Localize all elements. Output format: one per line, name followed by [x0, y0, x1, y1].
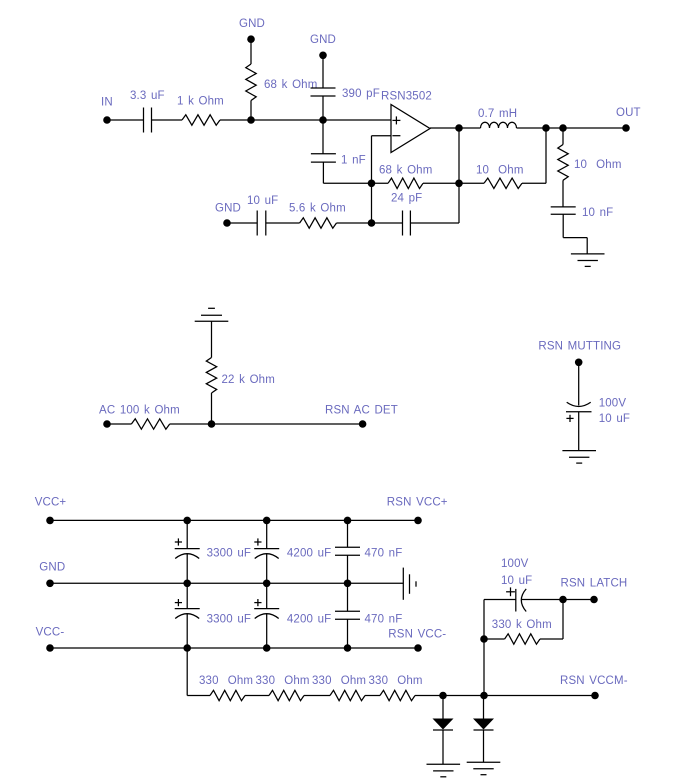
- node A junction: [247, 116, 255, 124]
- svg-text:GND: GND: [39, 562, 65, 574]
- svg-text:3.3 uF: 3.3 uF: [130, 90, 165, 102]
- node RSN AC DET terminal: [359, 420, 367, 428]
- wire L1 to node F: [517, 127, 547, 129]
- GND terminal 3: [223, 219, 231, 227]
- polarity + mark: [566, 415, 573, 422]
- svg-text:10 uF: 10 uF: [247, 195, 278, 207]
- resistor 22 k Ohm vertical: [206, 358, 216, 393]
- wire node A to node B: [251, 119, 323, 121]
- wire R1 to node A: [220, 119, 251, 121]
- svg-text:24 pF: 24 pF: [391, 193, 422, 205]
- svg-text:3300 uF: 3300 uF: [207, 548, 251, 560]
- svg-text:GND: GND: [239, 18, 265, 30]
- wire VCC+ rail: [50, 519, 418, 521]
- resistor 10 Ohm: [484, 178, 522, 188]
- capacitor 3300 uF electrolytic: [175, 549, 200, 559]
- resistor 330 Ohm 3: [330, 690, 365, 700]
- wire minus to node C: [371, 136, 373, 184]
- resistor 68 k Ohm vertical: [246, 64, 256, 100]
- wire node K to node L: [443, 695, 484, 697]
- wire C3 down: [322, 162, 324, 183]
- svg-text:5.6 k Ohm: 5.6 k Ohm: [289, 203, 346, 215]
- resistor 1 k Ohm: [182, 115, 220, 125]
- svg-text:10 Ohm: 10 Ohm: [476, 165, 524, 177]
- op-amp + input mark: [392, 116, 400, 124]
- label GND 4: [39, 562, 65, 574]
- label VCC-: [36, 627, 65, 639]
- diode D2: [473, 696, 494, 731]
- part label RSN3502: [381, 91, 432, 103]
- svg-text:RSN AC DET: RSN AC DET: [325, 405, 398, 417]
- capacitor 3300 uF electrolytic 2: [175, 609, 200, 619]
- svg-text:100V: 100V: [501, 558, 529, 570]
- label RSN AC DET: [325, 405, 398, 417]
- capacitor 3.3 uF: [144, 108, 152, 133]
- node OUT terminal: [622, 124, 630, 132]
- ground 2: [562, 451, 596, 464]
- wire R7 to node J: [211, 393, 213, 424]
- wire R13 to node N: [484, 638, 505, 640]
- value label 10 uF 2: [599, 413, 630, 425]
- svg-text:330 Ohm: 330 Ohm: [256, 675, 310, 687]
- svg-text:3300 uF: 3300 uF: [207, 614, 251, 626]
- node IN terminal: [103, 116, 111, 124]
- node RSN VCC- terminal: [414, 644, 422, 652]
- value label 10 uF 3: [501, 575, 532, 587]
- wire latch cap to node M: [521, 599, 563, 601]
- value label 68 k Ohm 2: [379, 165, 432, 177]
- resistor 10 Ohm vertical: [558, 145, 568, 181]
- svg-text:68 k Ohm: 68 k Ohm: [379, 165, 432, 177]
- capacitor 10 uF: [257, 211, 266, 236]
- diode D1: [433, 696, 454, 731]
- resistor 330 Ohm 2: [269, 690, 304, 700]
- wire node M down: [562, 600, 564, 640]
- wire C8 to GND rail: [186, 554, 188, 584]
- svg-text:330 k Ohm: 330 k Ohm: [492, 619, 552, 631]
- capacitor 470 nF 2: [335, 611, 360, 619]
- wire to ground: [586, 238, 588, 254]
- node RSN MUTTING terminal: [575, 359, 583, 367]
- wire chain 3-4: [365, 695, 380, 697]
- node VCC+ terminal: [46, 517, 54, 525]
- label OUT: [616, 107, 641, 119]
- resistor 330 k Ohm: [505, 634, 540, 644]
- wire GND2 to C2: [322, 55, 324, 88]
- node F junction: [542, 124, 550, 132]
- value label 3300 uF 2: [207, 614, 251, 626]
- node D junction: [368, 219, 376, 227]
- wire D2 to ground: [483, 730, 485, 762]
- svg-text:VCC+: VCC+: [35, 497, 67, 509]
- node GND terminal 4: [46, 580, 54, 588]
- svg-text:AC 100 k Ohm: AC 100 k Ohm: [99, 405, 180, 417]
- svg-text:RSN MUTTING: RSN MUTTING: [538, 341, 621, 353]
- ground 3 right-facing: [403, 568, 416, 600]
- node J junction: [208, 420, 216, 428]
- wire node H to R4: [459, 182, 484, 184]
- node AC terminal: [103, 420, 111, 428]
- wire jog right: [563, 237, 587, 239]
- polarity + mark 4: [175, 599, 182, 606]
- wire chain 1-2: [245, 695, 269, 697]
- label GND 3: [215, 203, 241, 215]
- svg-text:RSN VCC-: RSN VCC-: [388, 629, 446, 641]
- polarity + mark 6: [506, 587, 515, 596]
- resistor 100 k Ohm: [131, 419, 169, 429]
- wire R5 to C4: [562, 180, 564, 207]
- svg-text:IN: IN: [101, 97, 113, 109]
- value label 100V: [599, 398, 627, 410]
- wire node N down to node L: [483, 639, 485, 696]
- node VCC- terminal: [46, 644, 54, 652]
- wire R2 to node A: [250, 101, 252, 121]
- node rail junction 1: [183, 517, 191, 525]
- capacitor 10 nF: [551, 207, 576, 214]
- wire GND rail to C11: [186, 583, 188, 608]
- wire C11 to VCC- rail: [186, 614, 188, 649]
- wire node C to R3: [372, 182, 389, 184]
- node C junction: [368, 180, 376, 188]
- svg-text:GND: GND: [215, 203, 241, 215]
- svg-text:22 k Ohm: 22 k Ohm: [222, 374, 275, 386]
- wire up to node H: [458, 183, 460, 223]
- value label 1 k Ohm: [177, 96, 224, 108]
- polarity + mark 3: [254, 538, 261, 545]
- wire node F to node G: [546, 127, 563, 129]
- wire VCC+ to C8: [186, 520, 188, 548]
- resistor 5.6 k Ohm: [300, 218, 337, 228]
- GND terminal: [247, 35, 255, 43]
- capacitor 4200 uF electrolytic: [254, 549, 279, 559]
- wire GND rail: [50, 582, 403, 584]
- value label 330 k Ohm: [492, 619, 552, 631]
- value label 10 Ohm 2: [574, 159, 622, 171]
- wire D1 to ground: [442, 730, 444, 764]
- wire up to node F: [545, 128, 547, 183]
- value label 3300 uF: [207, 548, 251, 560]
- capacitor 4200 uF electrolytic 2: [254, 609, 279, 619]
- wire ground to R7: [211, 321, 213, 357]
- capacitor 1 nF: [311, 154, 336, 162]
- label IN: [101, 97, 113, 109]
- wire op-amp output: [430, 127, 459, 129]
- label RSN LATCH: [561, 578, 628, 590]
- svg-text:GND: GND: [310, 34, 336, 46]
- wire C2 to node B: [322, 96, 324, 120]
- node RSN VCC+ terminal: [414, 517, 422, 525]
- wire C9 to GND rail: [266, 554, 268, 584]
- wire chain 2-3: [304, 695, 330, 697]
- svg-text:1 k Ohm: 1 k Ohm: [177, 96, 224, 108]
- wire node B to C3: [322, 120, 324, 154]
- wire IN to C1: [107, 119, 144, 121]
- svg-text:10 uF: 10 uF: [599, 413, 630, 425]
- resistor 330 Ohm 1: [210, 690, 245, 700]
- node rail junction 6: [344, 580, 352, 588]
- wire VCC- down to chain: [186, 648, 188, 696]
- label AC 100 k Ohm: [99, 405, 180, 417]
- node RSN VCCM- terminal: [591, 692, 599, 700]
- wire C1 to R1: [152, 119, 183, 121]
- svg-text:390 pF: 390 pF: [342, 88, 380, 100]
- value label 100V 2: [501, 558, 529, 570]
- wire node M to RSN LATCH: [563, 599, 594, 601]
- wire R6 to node D: [337, 222, 372, 224]
- wire to R13: [540, 638, 563, 640]
- wire chain start: [187, 695, 210, 697]
- svg-text:100V: 100V: [599, 398, 627, 410]
- ground: [571, 254, 605, 267]
- wire C4 down: [562, 214, 564, 237]
- svg-text:10 Ohm: 10 Ohm: [574, 159, 622, 171]
- wire op-amp - stub: [372, 135, 392, 137]
- node rail junction 3: [344, 517, 352, 525]
- polarity + mark 2: [175, 538, 182, 545]
- node rail junction 4: [183, 580, 191, 588]
- capacitor 470 nF: [335, 547, 360, 555]
- value label 330 Ohm chain: [199, 675, 423, 687]
- wire C3 to node C: [323, 182, 371, 184]
- capacitor 390 pF: [311, 88, 336, 96]
- wire R3 to node H: [423, 182, 459, 184]
- value label 1 nF: [341, 155, 366, 167]
- ground inverted: [195, 308, 229, 321]
- wire GND rail to C13: [347, 583, 349, 611]
- wire C6 right: [410, 222, 459, 224]
- polarity + mark 5: [254, 599, 261, 606]
- node K junction: [439, 692, 447, 700]
- wire VCC+ to C9: [266, 520, 268, 548]
- value label 3.3 uF: [130, 90, 165, 102]
- svg-text:1 nF: 1 nF: [341, 155, 366, 167]
- svg-text:OUT: OUT: [616, 107, 641, 119]
- wire C12 to VCC- rail: [266, 614, 268, 649]
- wire C7 to ground: [578, 412, 580, 451]
- label RSN MUTTING: [538, 341, 621, 353]
- wire node D to C6: [372, 222, 403, 224]
- wire C5 to R6: [266, 222, 300, 224]
- label GND: [239, 18, 265, 30]
- wire VCC- rail: [50, 647, 418, 649]
- wire VCC+ to C10: [347, 520, 349, 547]
- value label 470 nF 2: [365, 614, 403, 626]
- svg-text:68 k Ohm: 68 k Ohm: [264, 79, 317, 91]
- wire C13 to VCC- rail: [347, 619, 349, 648]
- wire GND rail to C12: [266, 583, 268, 608]
- value label 68 k Ohm: [264, 79, 317, 91]
- wire node E to L1: [459, 127, 481, 129]
- node rail junction 2: [263, 517, 271, 525]
- node RSN LATCH terminal: [590, 596, 598, 604]
- capacitor 10 uF electrolytic latch: [516, 589, 526, 612]
- node E junction: [455, 124, 463, 132]
- svg-text:4200 uF: 4200 uF: [287, 548, 331, 560]
- svg-text:4200 uF: 4200 uF: [287, 614, 331, 626]
- value label 22 k Ohm: [222, 374, 275, 386]
- wire R4 right: [522, 182, 546, 184]
- inductor 0.7 mH: [481, 122, 517, 128]
- label VCC+: [35, 497, 67, 509]
- value label 10 nF: [582, 207, 613, 219]
- wire node C to node D: [371, 183, 373, 223]
- value label 24 pF: [391, 193, 422, 205]
- wire AC to R8: [107, 423, 131, 425]
- wire node G to OUT: [563, 127, 626, 129]
- node rail junction 7: [183, 644, 191, 652]
- ground 5: [467, 762, 501, 775]
- svg-text:470 nF: 470 nF: [365, 614, 403, 626]
- svg-text:RSN VCCM-: RSN VCCM-: [560, 675, 628, 687]
- ground 4: [427, 764, 461, 777]
- node B junction: [319, 116, 327, 124]
- value label 4200 uF: [287, 548, 331, 560]
- wire MUTTING to C7: [578, 362, 580, 405]
- node L junction: [480, 692, 488, 700]
- value label 470 nF: [365, 548, 403, 560]
- svg-text:RSN LATCH: RSN LATCH: [561, 578, 628, 590]
- svg-text:330 Ohm: 330 Ohm: [199, 675, 253, 687]
- label GND 2: [310, 34, 336, 46]
- wire node G to R5: [562, 128, 564, 145]
- node rail junction 9: [344, 644, 352, 652]
- svg-text:330 Ohm: 330 Ohm: [312, 675, 366, 687]
- node G junction: [559, 124, 567, 132]
- node M junction: [559, 596, 567, 604]
- op-amp - input mark: [392, 135, 400, 137]
- node N junction: [480, 635, 488, 643]
- svg-text:RSN VCC+: RSN VCC+: [387, 497, 448, 509]
- svg-text:330 Ohm: 330 Ohm: [369, 675, 423, 687]
- node rail junction 5: [263, 580, 271, 588]
- wire R8 to node J: [170, 423, 212, 425]
- wire latch left: [484, 599, 516, 601]
- resistor 68 k Ohm feedback: [388, 178, 423, 188]
- capacitor 100V 10 uF electrolytic: [566, 402, 592, 411]
- node rail junction 8: [263, 644, 271, 652]
- wire node E down to node H: [458, 128, 460, 183]
- svg-text:VCC-: VCC-: [36, 627, 65, 639]
- value label 0.7 mH: [478, 108, 517, 120]
- wire C10 to GND rail: [347, 555, 349, 583]
- op-amp U1 RSN3502: [391, 105, 430, 153]
- node H junction: [455, 180, 463, 188]
- wire GND3 to C5: [227, 222, 257, 224]
- value label 5.6 k Ohm: [289, 203, 346, 215]
- value label 10 uF: [247, 195, 278, 207]
- wire node N up to latch: [483, 600, 485, 640]
- svg-text:470 nF: 470 nF: [365, 548, 403, 560]
- wire chain to node K: [415, 695, 443, 697]
- resistor 330 Ohm 4: [380, 690, 415, 700]
- wire node B to op-amp +: [323, 119, 391, 121]
- svg-text:10 uF: 10 uF: [501, 575, 532, 587]
- svg-text:0.7 mH: 0.7 mH: [478, 108, 517, 120]
- wire GND to R2: [250, 39, 252, 64]
- value label 390 pF: [342, 88, 380, 100]
- label RSN VCC-: [388, 629, 446, 641]
- svg-text:10 nF: 10 nF: [582, 207, 613, 219]
- GND terminal 2: [319, 52, 327, 60]
- label RSN VCCM-: [560, 675, 628, 687]
- wire node L to RSN VCCM-: [484, 695, 595, 697]
- value label 10 Ohm: [476, 165, 524, 177]
- label RSN VCC+: [387, 497, 448, 509]
- value label 4200 uF 2: [287, 614, 331, 626]
- wire node J to RSN AC DET: [212, 423, 363, 425]
- svg-text:RSN3502: RSN3502: [381, 91, 432, 103]
- capacitor 24 pF: [403, 211, 411, 236]
